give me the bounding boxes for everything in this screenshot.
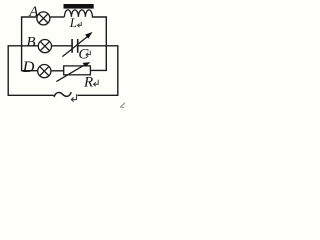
lamp D [38, 65, 51, 78]
return mark after ~ [71, 94, 76, 101]
resistor R body [64, 66, 91, 75]
svg-text:A: A [28, 4, 39, 20]
AC source ~ [54, 92, 71, 97]
svg-text:B: B [26, 35, 35, 51]
lamp B [38, 40, 51, 53]
wire: branch B left + left source lead + bottom wire left [8, 46, 54, 96]
wire: branch A right + right inner vertical bus + branch D right [90, 17, 106, 70]
wire: branch A left + left vertical bus + branch D left [22, 17, 38, 71]
capacitor C plates [72, 39, 78, 53]
return mark after C [86, 51, 90, 57]
inductor L iron core bar [64, 4, 94, 9]
wire: branch B right + right outer vertical + bottom wire right [77, 46, 117, 96]
wire: branch B middle (lamp B to capacitor) [52, 45, 72, 47]
svg-text:L: L [69, 15, 77, 30]
lamp A [37, 12, 50, 25]
wire: branch D middle (lamp D to resistor) [51, 70, 64, 72]
svg-text:D: D [22, 59, 35, 76]
stray return mark at image corner [120, 103, 125, 108]
resistor R arrow (variable) [56, 62, 90, 82]
return mark after R [94, 80, 99, 87]
wire: branch A middle (lamp A to coil) [50, 16, 65, 18]
capacitor C arrow (variable) [62, 32, 92, 57]
return mark after L [78, 22, 82, 27]
svg-text:R: R [83, 75, 93, 91]
inductor L coil [64, 10, 92, 17]
